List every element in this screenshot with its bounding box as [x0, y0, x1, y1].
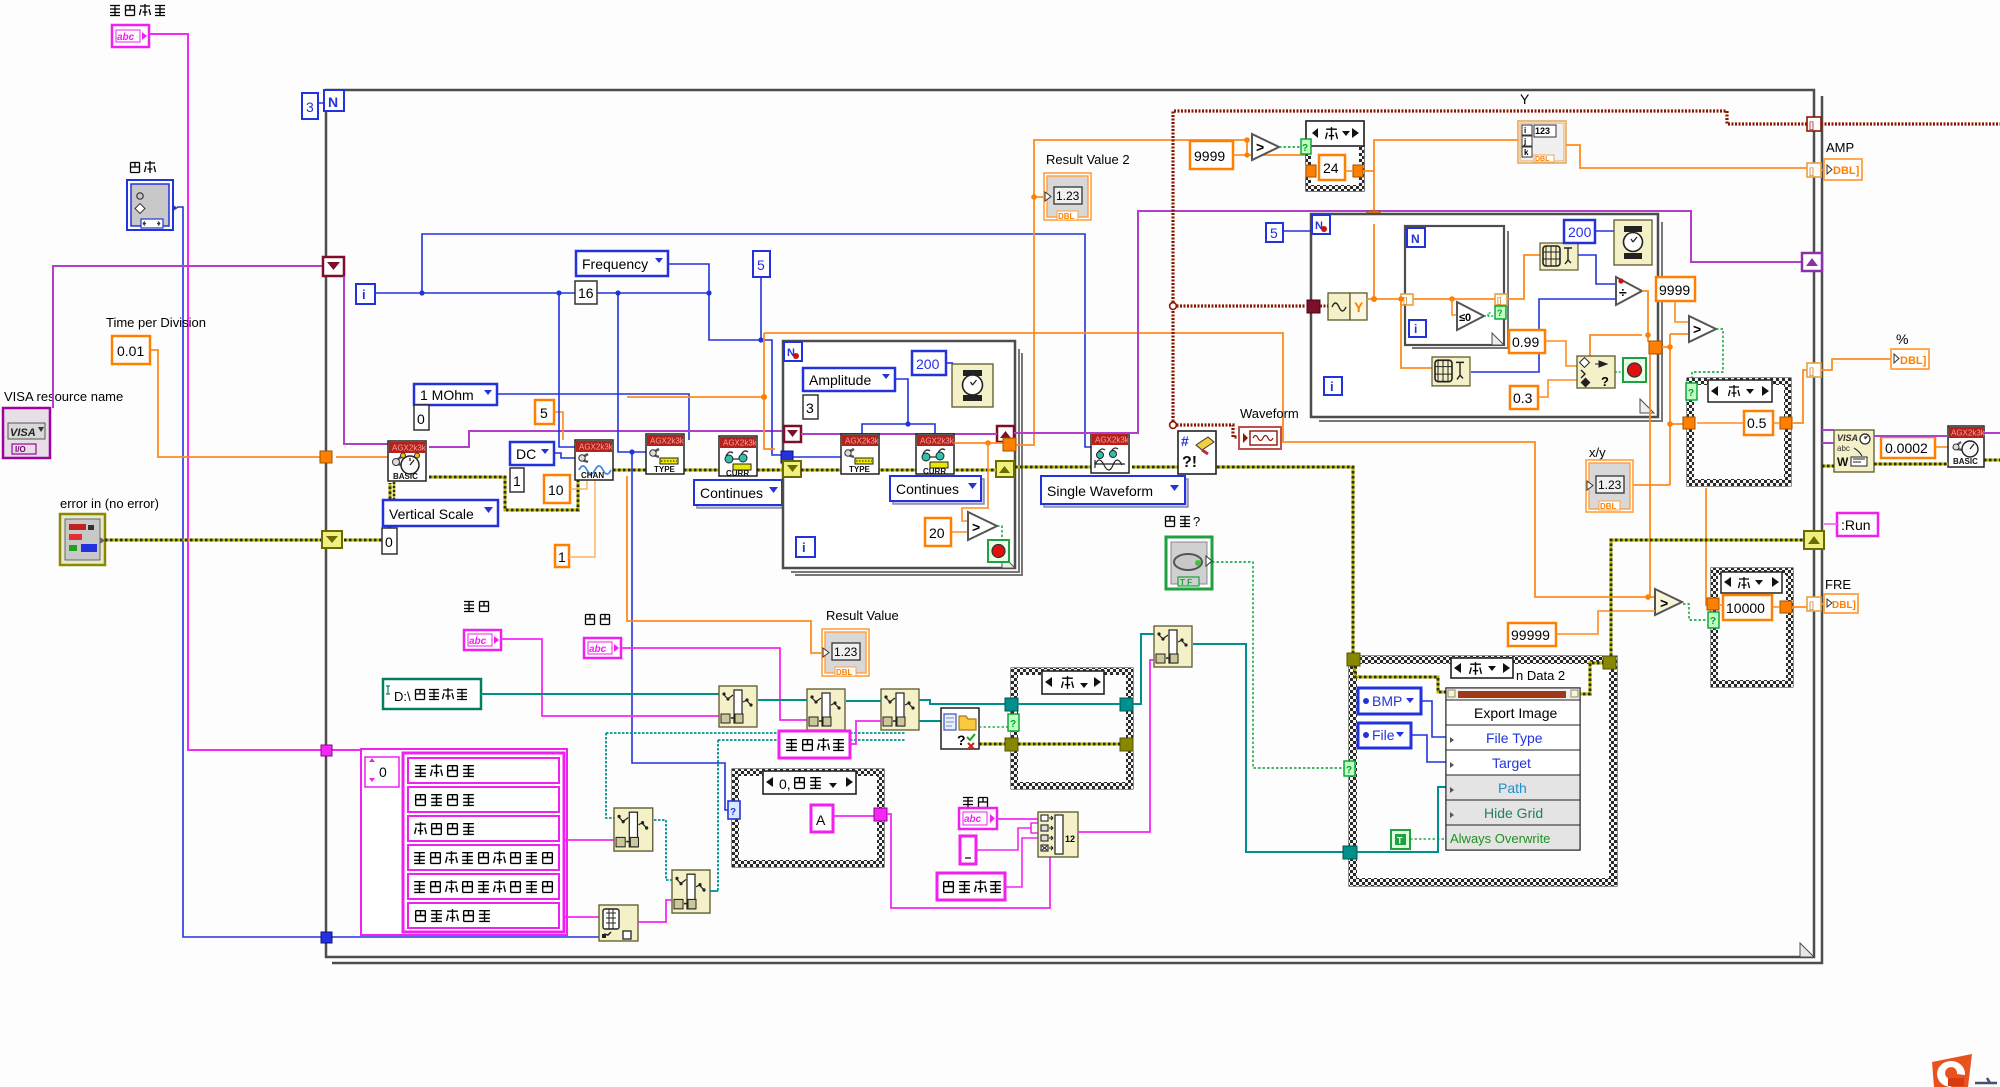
- wire yellow sine chain right: [1015, 467, 1353, 654]
- svg-text:I/O: I/O: [15, 445, 26, 454]
- wire purple loop1 to top right run: [1014, 211, 1803, 433]
- VISA control: [3, 408, 50, 458]
- tunnel purple up-arrow right border: [1802, 253, 1822, 271]
- wire 状态 (blue) to number-to-string: [177, 207, 599, 937]
- svg-text:VISA: VISA: [1837, 433, 1858, 443]
- wire empty to concat: [976, 823, 1040, 850]
- svg-text:3: 3: [806, 400, 814, 416]
- wire teal icon3 out to case: [919, 700, 1006, 721]
- case structure 24: [1301, 121, 1364, 191]
- svg-text:9999: 9999: [1659, 282, 1690, 298]
- error in cluster: [60, 514, 105, 565]
- svg-text:DBL: DBL: [1535, 156, 1550, 163]
- label 片号: [963, 798, 988, 808]
- file dialog icon: [941, 708, 979, 749]
- VI icon AGX BASIC: [388, 441, 427, 481]
- wire 0.01 (orange): [150, 350, 389, 457]
- svg-text::Run: :Run: [1841, 517, 1871, 533]
- svg-text:VISA resource name: VISA resource name: [4, 389, 123, 404]
- ring Continues 1: [697, 483, 785, 508]
- svg-text:>: >: [1660, 595, 1668, 611]
- inner for-loop 2 frame: [1319, 222, 1662, 421]
- VI icon AGX CURR 2: [916, 434, 955, 476]
- constant 0.5: [1744, 411, 1773, 435]
- build path icon 2: [807, 689, 845, 730]
- wire DC to CHAN: [554, 453, 575, 458]
- main for-loop frame: [326, 90, 1814, 957]
- loop2 iterator i: [1324, 377, 1342, 395]
- constant 3: [302, 93, 318, 119]
- svg-text:0.99: 0.99: [1512, 334, 1539, 350]
- wire yellow inside loop1: [801, 469, 996, 472]
- array row 中间测试: [408, 787, 559, 812]
- svg-text:5: 5: [1270, 225, 1278, 241]
- case structure Waveform Data 2 (export): [1343, 653, 1617, 886]
- case structure 10000 (true): [1707, 568, 1793, 687]
- svg-text:DBL]: DBL]: [1832, 600, 1856, 611]
- tunnel maroon into loop1 left: [784, 426, 801, 442]
- loop1 iterator i: [796, 537, 815, 557]
- wire VISA chain BASIC->CHAN->loop1 (purple): [429, 431, 800, 447]
- svg-text:BMP: BMP: [1372, 693, 1402, 709]
- scale-to-time icon #?!: [1178, 431, 1216, 474]
- constant 200 (loop2): [1564, 220, 1595, 243]
- wire path D: (teal): [481, 693, 719, 695]
- tunnel orange loop2 right: [1649, 341, 1662, 354]
- wire case 0.5 out to %: [1792, 359, 1891, 423]
- svg-text:i: i: [1524, 126, 1526, 135]
- tunnel DBL right border (AMP): [1807, 163, 1821, 177]
- VI icon AGX CURR: [719, 436, 758, 478]
- svg-text:1.23: 1.23: [1056, 189, 1080, 203]
- svg-text:VISA: VISA: [10, 427, 36, 439]
- wire divide out down to tunnel: [1590, 291, 1648, 356]
- wire 5 to N: [1283, 230, 1312, 232]
- ring Amplitude: [803, 368, 895, 391]
- wire orange ~Y out: [1367, 224, 1404, 299]
- wire case A out down to concat: [887, 814, 1050, 908]
- ring Continues 2: [893, 479, 984, 504]
- wire orange trunk 2 down to FRE compare: [1650, 354, 1712, 605]
- svg-text:DBL]: DBL]: [1833, 165, 1860, 177]
- wire 波形图片 to icon3: [850, 721, 881, 744]
- label :Run: [1837, 513, 1878, 536]
- subset icon D: [672, 870, 710, 913]
- wires BMP/File to invoke: [1411, 701, 1446, 762]
- svg-text:FRE: FRE: [1825, 577, 1851, 592]
- inner-inner N: [1407, 228, 1425, 247]
- svg-text:Export Image: Export Image: [1474, 705, 1557, 721]
- wire orange inside inner loop: [1413, 298, 1495, 300]
- constant 9999 top: [1190, 141, 1233, 169]
- svg-text:0.0002: 0.0002: [1885, 440, 1928, 456]
- wire iconD out: [710, 890, 718, 892]
- wire 1 to CHAN: [569, 476, 595, 557]
- wire 型号 (pink): [501, 639, 719, 716]
- wire error chain BASIC->CHAN (yellow dotted): [429, 473, 578, 510]
- wire T to invoke: [1410, 838, 1446, 840]
- VI icon AGX TYPE 2: [841, 434, 880, 474]
- invoke node Export Image: [1446, 688, 1580, 850]
- svg-text:10000: 10000: [1726, 600, 1765, 616]
- wire VISA inside loop to BASIC: [344, 276, 389, 444]
- for-loop count N box: [324, 90, 344, 111]
- tunnel dark-yellow arrow left border: [322, 531, 342, 548]
- VI icon AGX waveform read (sine): [1091, 433, 1130, 473]
- svg-text:abc: abc: [117, 32, 135, 43]
- VI icon AGX BASIC 2: [1948, 426, 1986, 467]
- svg-text:[]: []: [1403, 296, 1407, 305]
- wait(ms) timer icon: [952, 364, 993, 407]
- case structure 0.5 (true): [1683, 378, 1792, 486]
- svg-text:W: W: [1837, 455, 1849, 469]
- wire green to case 0.5: [1692, 329, 1723, 384]
- wire orange CHAN down to Result Value: [627, 476, 822, 653]
- indicator AMP DBL: [1824, 159, 1862, 180]
- svg-text:File: File: [1372, 727, 1395, 743]
- wire branch to TYPE: [618, 293, 646, 452]
- svg-text:>: >: [972, 519, 980, 535]
- wire teal case out up to build path: [1133, 634, 1154, 704]
- compare <=0 triangle: [1457, 302, 1484, 330]
- logo bottom right: [1932, 1054, 1997, 1087]
- tunnel green ? inner-inner right: [1495, 306, 1506, 319]
- string constant empty: [960, 836, 976, 864]
- wire interpB to divide second input: [1471, 299, 1617, 372]
- match pattern icon 3: [881, 689, 919, 730]
- wire maroon to ~Y: [1320, 305, 1328, 308]
- ring Frequency: [576, 251, 668, 276]
- string control 型号: [464, 630, 501, 650]
- svg-text:abc: abc: [1837, 444, 1850, 453]
- svg-text:[]: []: [1809, 166, 1814, 176]
- stop button loop2: [1623, 358, 1646, 382]
- svg-text:5: 5: [757, 257, 765, 273]
- wire green comparator to case10000: [1683, 604, 1710, 620]
- wire teal icon1 to icon2: [758, 699, 807, 701]
- comparison greater (loop1): [968, 512, 997, 540]
- svg-text:?: ?: [1710, 616, 1716, 627]
- svg-text:?!: ?!: [1182, 454, 1197, 471]
- tunnel maroon out loop1 right: [997, 426, 1014, 442]
- wire case24 out to ijk and loop2: [1363, 140, 1518, 299]
- svg-text:i: i: [362, 287, 366, 302]
- wire teal inside export to Path: [1357, 787, 1446, 852]
- constant 10000: [1723, 595, 1772, 620]
- tunnel maroon right border: [1807, 117, 1821, 131]
- tunnel orange inner-inner right: [1495, 294, 1507, 305]
- wire 5 down: [760, 277, 762, 340]
- constant 0.99: [1509, 330, 1545, 353]
- svg-text:Y: Y: [1520, 91, 1530, 107]
- tunnel green up-arrow right border: [1804, 531, 1824, 549]
- constant 16: [575, 281, 597, 304]
- wire 9999 to greater: [1233, 154, 1247, 156]
- wire pink num2str out to iconD: [638, 900, 672, 922]
- constant 0.3: [1510, 386, 1538, 409]
- svg-text:?: ?: [1688, 388, 1694, 399]
- wire BASIC error down to Vertical Scale: [393, 482, 396, 500]
- svg-text:?: ?: [1346, 765, 1352, 776]
- wire green to ? tunnel: [1484, 313, 1495, 316]
- inner-inner i: [1409, 320, 1426, 337]
- comparator greater (FRE): [1655, 589, 1682, 615]
- wire orange down to interp B: [1401, 299, 1432, 368]
- svg-text:16: 16: [578, 285, 594, 301]
- svg-text:Target: Target: [1492, 755, 1531, 771]
- svg-text:BASIC: BASIC: [1953, 457, 1978, 466]
- svg-text:AGX2k3k: AGX2k3k: [1951, 429, 1986, 438]
- wire green to stop: [997, 526, 1002, 542]
- string constant 波形图片: [779, 731, 850, 758]
- svg-text:Waveform: Waveform: [1240, 406, 1299, 421]
- wire 1MOhm (blue): [497, 394, 689, 440]
- wire yellow export-case up to run tunnel: [1611, 540, 1806, 656]
- comparator greater (AMP): [1689, 316, 1716, 342]
- tunnel green ? left: [1344, 761, 1355, 776]
- wire teal iconC to iconD: [654, 820, 672, 880]
- svg-text:Frequency: Frequency: [582, 256, 648, 272]
- svg-text:j: j: [1523, 137, 1526, 146]
- constant 1: [510, 468, 524, 492]
- tunnel orange square loop1 right: [1003, 438, 1016, 451]
- array row 筛选中老炼后电测试: [408, 874, 559, 899]
- svg-text:5: 5: [540, 405, 548, 421]
- loop iterator i box: [356, 284, 375, 304]
- wire teal icon2 to icon3: [846, 700, 881, 702]
- wire Frequency out: [668, 264, 783, 455]
- indicator Result Value 2 DBL: [1044, 173, 1091, 221]
- svg-text:[]: []: [1809, 366, 1814, 376]
- svg-text:CURR: CURR: [726, 469, 749, 478]
- wire ijk out to AMP tunnel: [1566, 145, 1808, 168]
- boolean T constant: [1391, 830, 1410, 849]
- wire 200 to wait: [946, 362, 953, 364]
- wire maroon branch to Waveform indicator: [1173, 425, 1239, 437]
- VI icon AGX TYPE: [646, 434, 685, 474]
- svg-text:AMP: AMP: [1826, 140, 1854, 155]
- svg-text:1 MOhm: 1 MOhm: [420, 387, 474, 403]
- comparison greater (top, result>9999): [1252, 134, 1279, 160]
- svg-text:99999: 99999: [1511, 627, 1550, 643]
- wire branch to CHAN: [559, 293, 575, 447]
- svg-text:TYPE: TYPE: [849, 465, 871, 474]
- tunnel yellow out loop1 right: [996, 461, 1014, 477]
- svg-text:0,: 0,: [779, 776, 791, 792]
- wire green file dialog: [979, 726, 1011, 728]
- svg-text:D:\: D:\: [394, 689, 411, 704]
- svg-text:1: 1: [558, 549, 566, 565]
- svg-text:24: 24: [1323, 160, 1339, 176]
- constant 10 orange: [544, 475, 570, 503]
- svg-text:i: i: [802, 540, 806, 555]
- array row 小样测试: [408, 758, 559, 783]
- svg-text:abc: abc: [589, 644, 607, 655]
- constant 0 (on error wire): [382, 528, 397, 554]
- svg-text:÷: ÷: [1619, 284, 1627, 300]
- interpolate icon B: [1432, 357, 1470, 386]
- divide node: [1616, 277, 1642, 305]
- VISA write icon: [1834, 430, 1874, 472]
- wire green select to stop: [1615, 371, 1623, 373]
- svg-text:Result Value: Result Value: [826, 608, 899, 623]
- svg-text:1.23: 1.23: [834, 645, 858, 659]
- tunnel DBL right border (%): [1807, 363, 1821, 377]
- wire 片号 to concat: [997, 818, 1040, 820]
- wire orange horizontal y333: [764, 333, 1655, 597]
- wire 10 to CHAN: [570, 476, 587, 489]
- svg-text:[]: []: [1809, 120, 1814, 130]
- svg-text:?: ?: [1302, 143, 1308, 154]
- wire Amplitude out: [862, 379, 935, 434]
- wire concat out to build path B: [1078, 660, 1154, 832]
- wire green compare to case24: [1279, 146, 1303, 148]
- ring DC: [510, 442, 554, 465]
- boolean 保存? TF button: [1166, 537, 1212, 589]
- tunnel pink on left border: [321, 745, 332, 756]
- wire array row3 to subset icon: [564, 839, 614, 841]
- svg-text:T F: T F: [1180, 578, 1192, 587]
- svg-text:[]: []: [1809, 600, 1814, 610]
- svg-text:error in (no error): error in (no error): [60, 496, 159, 511]
- label 电路状态: [110, 4, 165, 16]
- svg-text:>: >: [1256, 139, 1264, 155]
- numeric constant 0.01: [112, 336, 150, 364]
- constant 3: [803, 395, 818, 419]
- constant 200: [912, 351, 946, 375]
- svg-text:#: #: [1181, 433, 1189, 449]
- wires purple to VISA write: [1822, 430, 1834, 443]
- constant 20: [925, 518, 951, 546]
- svg-text:Always Overwrite: Always Overwrite: [1450, 831, 1550, 846]
- tunnel yellow into loop1 left: [783, 461, 801, 477]
- svg-text:N: N: [328, 94, 338, 110]
- svg-text:Amplitude: Amplitude: [809, 372, 871, 388]
- constant 0 under 1MOhm: [414, 405, 429, 430]
- indicator Waveform: [1239, 427, 1281, 449]
- wire maroon branch to loop2: [1173, 304, 1306, 307]
- tunnel orange loop2 top: [1367, 211, 1380, 224]
- wire case10000 out to FRE: [1792, 604, 1824, 607]
- ring File: [1358, 723, 1411, 748]
- loop1 N counter: [784, 342, 802, 361]
- label 型号: [464, 602, 489, 612]
- svg-text:?: ?: [1497, 308, 1503, 318]
- wire 9999 down to comparator: [1675, 301, 1689, 322]
- wire 20 to greater: [951, 443, 988, 532]
- svg-text:0.5: 0.5: [1747, 415, 1767, 431]
- get waveform components icon ~Y: [1328, 293, 1367, 320]
- wire interpA to divide: [1578, 255, 1617, 284]
- string control 电路状态: [112, 25, 149, 47]
- number to fractional string icon: [599, 905, 638, 941]
- wire purple inside loop1: [801, 433, 997, 435]
- svg-text:TYPE: TYPE: [654, 465, 676, 474]
- svg-text:A: A: [816, 812, 826, 828]
- tunnel orange on left border: [320, 451, 332, 463]
- tunnel blue on left border: [321, 932, 332, 943]
- svg-text:0.01: 0.01: [117, 343, 144, 359]
- timer icon loop2: [1614, 220, 1652, 265]
- wire i to 16 (blue main): [375, 292, 709, 294]
- svg-text:Result Value 2: Result Value 2: [1046, 152, 1130, 167]
- svg-text:?: ?: [1010, 719, 1016, 730]
- svg-text:Path: Path: [1498, 780, 1527, 796]
- tunnel maroon loop2 left: [1307, 300, 1320, 313]
- svg-text:Continues: Continues: [896, 481, 959, 497]
- svg-text:DBL: DBL: [1058, 212, 1075, 221]
- svg-text:i: i: [1414, 322, 1417, 336]
- wire green 保存 to export case: [1212, 562, 1345, 768]
- wire 控温波形 to concat: [1005, 838, 1040, 887]
- wire 电路状态 string (magenta): [149, 34, 361, 750]
- tunnel maroon arrow left border: [323, 257, 344, 276]
- svg-text:0: 0: [417, 411, 425, 427]
- svg-text:Vertical Scale: Vertical Scale: [389, 506, 474, 522]
- constant A: [811, 805, 833, 832]
- tunnel orange inner-inner left: [1401, 294, 1413, 305]
- interpolate icon A: [1540, 243, 1578, 270]
- ring BMP: [1358, 688, 1421, 714]
- svg-text:≤0: ≤0: [1459, 312, 1471, 324]
- indicator FRE DBL: [1824, 594, 1858, 613]
- label 状态: [131, 161, 156, 173]
- subset icon C: [614, 808, 653, 851]
- wire VISA (purple) up and into loop: [53, 266, 325, 408]
- svg-text:DBL: DBL: [1600, 502, 1617, 511]
- constant 24 inside case: [1319, 155, 1345, 180]
- stop button loop1: [988, 540, 1009, 562]
- wire yellow inside export: [1355, 663, 1603, 694]
- indicator % DBL: [1891, 349, 1929, 369]
- concatenate strings icon: [1038, 812, 1078, 857]
- svg-text:Time per Division: Time per Division: [106, 315, 206, 330]
- array constant of test names: [361, 749, 567, 935]
- svg-text:10: 10: [548, 482, 564, 498]
- svg-text:123: 123: [1535, 126, 1550, 136]
- case structure 0,默认: [728, 769, 887, 867]
- array row 成品测试: [408, 816, 559, 841]
- svg-text:DC: DC: [516, 446, 536, 462]
- svg-text:n Data 2: n Data 2: [1516, 668, 1565, 683]
- constant 5 orange: [535, 400, 554, 424]
- string constant 控温波形: [937, 873, 1005, 900]
- svg-text:20: 20: [929, 525, 945, 541]
- constant 0.0002: [1881, 437, 1935, 458]
- ring constant 1 MOhm: [414, 384, 497, 405]
- svg-text:1: 1: [513, 473, 521, 489]
- wire 批号 (pink): [621, 648, 807, 720]
- indicator x/y DBL: [1586, 460, 1633, 512]
- svg-text:CURR: CURR: [923, 467, 946, 476]
- wire 5 to CHAN: [554, 412, 563, 440]
- svg-text:3: 3: [306, 99, 314, 115]
- index array icon (i j k): [1518, 121, 1566, 163]
- wire yellow file dialog: [979, 743, 1006, 746]
- svg-text:Hide Grid: Hide Grid: [1484, 805, 1543, 821]
- case structure true (file): [1005, 668, 1133, 789]
- string control 片号: [959, 808, 997, 829]
- svg-text:?: ?: [957, 732, 966, 748]
- svg-text:x/y: x/y: [1589, 445, 1606, 460]
- svg-text:%: %: [1896, 331, 1908, 347]
- array row 最终电测试: [408, 903, 559, 928]
- tunnels dark yellow on export top: [1347, 653, 1360, 666]
- svg-text:12: 12: [1065, 834, 1075, 844]
- indicator Result Value DBL: [822, 629, 869, 677]
- array row 筛选中老炼前电测试: [408, 845, 559, 870]
- wire orange vertical x764: [627, 333, 775, 449]
